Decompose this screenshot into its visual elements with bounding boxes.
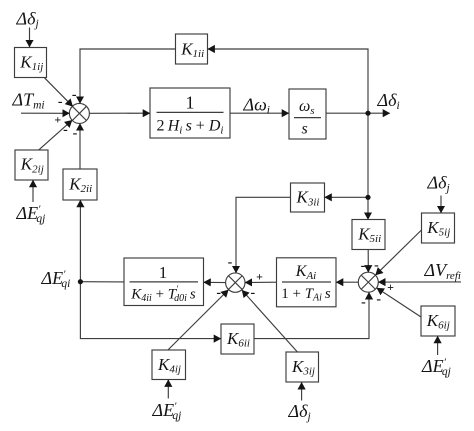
svg-text:-: - bbox=[216, 285, 221, 300]
svg-text:-: - bbox=[58, 95, 63, 110]
svg-text:-: - bbox=[361, 258, 366, 273]
svg-text:s: s bbox=[302, 121, 308, 138]
svg-text:-: - bbox=[250, 286, 255, 301]
svg-text:Δδj: Δδj bbox=[427, 173, 450, 195]
svg-text:+: + bbox=[387, 280, 394, 294]
svg-text:Δδi: Δδi bbox=[377, 90, 400, 112]
svg-text:+: + bbox=[256, 269, 263, 283]
svg-text:Δωi: Δωi bbox=[243, 95, 270, 117]
svg-text:-: - bbox=[361, 295, 366, 310]
svg-text:Δδj: Δδj bbox=[16, 8, 39, 30]
svg-text:-: - bbox=[228, 255, 233, 270]
svg-text:-: - bbox=[72, 88, 77, 103]
svg-text:+: + bbox=[54, 112, 61, 126]
svg-text:-: - bbox=[63, 123, 68, 138]
svg-text:1: 1 bbox=[186, 93, 195, 113]
svg-text:-: - bbox=[374, 258, 379, 273]
svg-text:Δδj: Δδj bbox=[288, 401, 311, 423]
svg-text:K4ii + T′d0i s: K4ii + T′d0i s bbox=[130, 284, 196, 304]
svg-text:-: - bbox=[376, 292, 381, 307]
svg-text:2 Hi s + Di: 2 Hi s + Di bbox=[157, 118, 224, 137]
svg-text:-: - bbox=[73, 126, 78, 141]
svg-text:1: 1 bbox=[159, 263, 168, 282]
svg-text:1 + TAi s: 1 + TAi s bbox=[281, 286, 331, 304]
